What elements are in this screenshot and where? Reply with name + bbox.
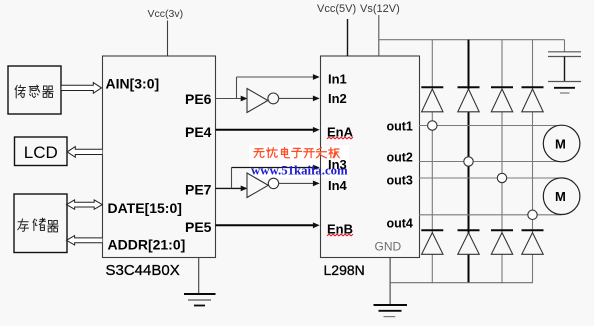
- svg-text:EnA: EnA: [327, 124, 354, 139]
- arrowhead into EnB: [313, 222, 320, 228]
- label 传感器 (sensor) glyph strokes: [15, 85, 53, 98]
- inverter U2 (PE6 to In2): [247, 89, 279, 113]
- svg-text:In1: In1: [328, 71, 347, 86]
- diode D8 (bottom, column 4): [522, 230, 544, 254]
- diode D1 (top, column 1): [421, 87, 443, 112]
- watermark www.51kaifa.com (blue): [251, 163, 348, 177]
- diode D6 (bottom, column 2): [458, 230, 480, 254]
- wire top supply bus from Vs line: [379, 40, 565, 52]
- svg-text:M: M: [555, 189, 566, 204]
- pin label PE6: [185, 91, 212, 107]
- pin label DATE[15:0]: [108, 200, 182, 216]
- wire out3: [419, 177, 562, 179]
- wire inverter U3 output to In4: [279, 182, 314, 184]
- bus arrow ADDR[21:0] to memory: [67, 236, 103, 245]
- wire bottom return bus: [390, 282, 532, 284]
- svg-text:PE4: PE4: [185, 124, 212, 140]
- svg-text:PE5: PE5: [185, 219, 212, 235]
- svg-text:Vcc(5V): Vcc(5V): [317, 3, 356, 15]
- diode D7 (bottom, column 3): [491, 230, 513, 254]
- ground below S3C44B0X: [184, 258, 216, 306]
- wire column 1: [431, 40, 433, 284]
- spellcheck squiggle under EnA: [327, 137, 353, 139]
- diode D3 (top, column 3): [491, 87, 513, 112]
- ground below L298N: [374, 258, 408, 317]
- pin label In4: [328, 178, 348, 193]
- diode D2 (top, column 2): [458, 87, 480, 112]
- svg-text:S3C44B0X: S3C44B0X: [106, 262, 180, 279]
- wire Vcc(3v) to S3C44B0X top: [167, 21, 169, 57]
- bus arrow S3C44B0X to LCD: [67, 147, 102, 158]
- arrowhead into EnA: [313, 127, 320, 133]
- wire PE6 from S3C44B0X: [216, 98, 247, 100]
- watermark 无忧电子开发板 (red) glyph strokes: [254, 148, 339, 158]
- bus arrow DATE[15:0] bidirectional: [67, 200, 103, 209]
- svg-text:Vcc(3v): Vcc(3v): [148, 8, 184, 20]
- wire PE7 from S3C44B0X: [216, 187, 247, 189]
- wire riser node to In3: [232, 168, 315, 189]
- svg-text:out1: out1: [387, 120, 413, 134]
- label 存储器 (memory) glyph strokes: [18, 218, 58, 232]
- inverter U3 (PE7 to In4): [247, 173, 279, 198]
- wire out4: [419, 214, 562, 216]
- svg-text:out2: out2: [387, 151, 413, 165]
- diode D5 (bottom, column 1): [421, 230, 443, 254]
- motor M1: [543, 125, 580, 162]
- motor M2: [543, 178, 580, 215]
- arrowhead into In2: [313, 96, 320, 102]
- MCU U1 S3C44B0X box: [103, 56, 216, 258]
- wire column 3: [501, 40, 503, 284]
- svg-text:PE6: PE6: [185, 91, 212, 107]
- power net Vcc(5V) label: [317, 3, 356, 15]
- svg-text:L298N: L298N: [324, 262, 365, 278]
- svg-text:www.51kaifa.com: www.51kaifa.com: [251, 163, 348, 177]
- pin label PE4: [185, 124, 212, 140]
- pin label EnA: [327, 124, 354, 139]
- pin label EnB: [327, 221, 353, 236]
- pin label AIN[3:0]: [106, 76, 160, 92]
- wire out2: [419, 161, 562, 163]
- wire Vs(12V) to L298N top: [378, 15, 380, 56]
- watermark background: [249, 145, 349, 178]
- sensor block 传感器: [8, 66, 61, 114]
- svg-text:M: M: [555, 137, 566, 152]
- pin label PE7: [185, 182, 212, 198]
- wire inverter U2 output to In2: [279, 97, 314, 99]
- power net Vcc(3v) label: [148, 8, 184, 20]
- wire column 2 (bold): [468, 40, 470, 283]
- svg-text:In2: In2: [328, 91, 347, 106]
- wire riser node to In1: [237, 77, 315, 99]
- wire PE5 to EnB (bold): [216, 224, 315, 226]
- junction node out4/column4: [528, 210, 537, 219]
- pin label In3: [328, 157, 347, 172]
- arrowhead into inverter U3 input: [241, 186, 248, 192]
- LCD block: [15, 137, 68, 166]
- pin label In2: [328, 91, 347, 106]
- svg-text:out4: out4: [387, 217, 413, 231]
- capacitor C1: [548, 52, 581, 82]
- ground below capacitor C1: [548, 82, 581, 94]
- power net Vs(12V) label: [360, 3, 400, 15]
- svg-text:In4: In4: [328, 178, 348, 193]
- diode D4 (top, column 4): [522, 87, 544, 112]
- wire PE4 to EnA (bold): [216, 129, 315, 131]
- svg-text:AIN[3:0]: AIN[3:0]: [106, 76, 160, 92]
- bus arrow sensor to AIN[3:0]: [62, 83, 102, 94]
- svg-text:out3: out3: [387, 174, 413, 188]
- junction node out3/column3: [497, 173, 506, 182]
- junction node out1/column1: [428, 121, 437, 130]
- label L298N: [324, 262, 365, 278]
- pin label out2: [387, 151, 413, 165]
- svg-text:ADDR[21:0]: ADDR[21:0]: [108, 237, 186, 253]
- arrowhead into inverter U2 input: [241, 96, 248, 102]
- wire out1: [419, 125, 562, 127]
- wire Vcc(5V) to L298N top: [347, 19, 349, 56]
- label S3C44B0X: [106, 262, 180, 279]
- pin label out3: [387, 174, 413, 188]
- svg-text:Vs(12V): Vs(12V): [360, 3, 400, 15]
- svg-text:PE7: PE7: [185, 182, 212, 198]
- pin label In1: [328, 71, 347, 86]
- pin label out1: [387, 120, 413, 134]
- junction node out2/column2: [464, 157, 473, 166]
- svg-text:DATE[15:0]: DATE[15:0]: [108, 200, 182, 216]
- svg-text:GND: GND: [375, 240, 402, 254]
- arrowhead into In1: [313, 74, 320, 80]
- pin label ADDR[21:0]: [108, 237, 186, 253]
- pin label out4: [387, 217, 413, 231]
- svg-text:LCD: LCD: [24, 143, 58, 162]
- driver U4 L298N box: [321, 56, 420, 258]
- memory block 存储器: [14, 194, 67, 253]
- arrowhead into In3: [313, 165, 320, 171]
- pin label PE5: [185, 219, 212, 235]
- spellcheck squiggle under EnB: [327, 234, 353, 236]
- arrowhead into In4: [313, 181, 320, 187]
- wire column 4: [532, 40, 534, 284]
- pin label GND: [375, 240, 402, 254]
